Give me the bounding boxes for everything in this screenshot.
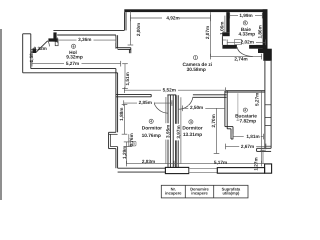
svg-text:1,29m: 1,29m: [122, 146, 127, 159]
svg-text:4,92m: 4,92m: [166, 15, 179, 20]
svg-text:Dormitor: Dormitor: [142, 126, 162, 132]
svg-text:0,22m: 0,22m: [34, 46, 47, 51]
svg-text:2,02m: 2,02m: [241, 40, 254, 45]
svg-text:2,00m: 2,00m: [136, 23, 141, 36]
svg-text:9.32mp: 9.32mp: [66, 55, 83, 61]
svg-text:0,76m: 0,76m: [129, 133, 134, 146]
svg-text:2,85m: 2,85m: [139, 100, 152, 105]
svg-text:3: 3: [190, 120, 192, 124]
svg-text:3,97m: 3,97m: [176, 125, 181, 138]
svg-text:1,99m: 1,99m: [239, 13, 252, 18]
svg-text:1: 1: [195, 56, 197, 60]
svg-text:5,52m: 5,52m: [163, 88, 176, 93]
svg-text:3,36m: 3,36m: [78, 37, 91, 42]
svg-text:4: 4: [150, 119, 152, 123]
svg-text:30.58mp: 30.58mp: [187, 67, 206, 73]
svg-text:3,95m: 3,95m: [166, 125, 171, 138]
svg-text:incapere: incapere: [165, 191, 182, 196]
svg-text:incapere: incapere: [191, 191, 208, 196]
svg-text:5: 5: [244, 21, 246, 25]
svg-text:1,06m: 1,06m: [220, 22, 225, 35]
svg-text:1,27m: 1,27m: [254, 157, 259, 170]
svg-text:1,81m: 1,81m: [246, 134, 259, 139]
svg-text:2,70m: 2,70m: [211, 114, 216, 127]
svg-text:1,58m: 1,58m: [29, 49, 34, 62]
svg-text:Dormitor: Dormitor: [182, 126, 202, 132]
svg-text:7.82mp: 7.82mp: [240, 119, 257, 125]
svg-text:5,27m: 5,27m: [255, 93, 260, 106]
svg-text:Bucatarie: Bucatarie: [235, 113, 257, 119]
svg-text:5,27m: 5,27m: [66, 61, 79, 66]
svg-text:10.76mp: 10.76mp: [142, 133, 161, 139]
svg-text:2,07m: 2,07m: [205, 26, 210, 39]
svg-text:1,86m: 1,86m: [258, 25, 263, 38]
svg-text:13.31mp: 13.31mp: [183, 132, 202, 138]
svg-text:utila(mp): utila(mp): [222, 191, 240, 196]
svg-text:2: 2: [244, 108, 246, 112]
svg-text:5,17m: 5,17m: [214, 160, 227, 165]
svg-text:2,50m: 2,50m: [190, 105, 203, 110]
svg-text:1,51m: 1,51m: [125, 72, 130, 85]
svg-text:2,67m: 2,67m: [241, 144, 254, 149]
svg-text:4.33mp: 4.33mp: [239, 31, 256, 37]
svg-text:Camera de zi: Camera de zi: [182, 62, 212, 68]
svg-text:2,83m: 2,83m: [142, 159, 155, 164]
svg-text:6: 6: [73, 44, 75, 48]
svg-text:2,74m: 2,74m: [234, 57, 247, 62]
svg-text:1,88m: 1,88m: [119, 108, 124, 121]
